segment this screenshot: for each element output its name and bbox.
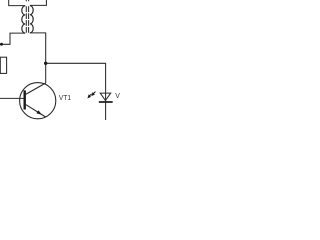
LED emission arrow 1 tail — [93, 92, 95, 94]
wire: node A to LED anode — [46, 63, 106, 93]
transformer core tick right (top edge) — [28, 0, 30, 1]
svg-text:VT1: VT1 — [59, 95, 71, 102]
wire: primary winding top lead exiting top edge — [9, 0, 26, 6]
wire: secondary winding top lead exiting top edge — [30, 0, 47, 5]
transistor base bar — [24, 90, 26, 109]
wire: base lead from left edge — [0, 97, 24, 99]
svg-text:VD1: VD1 — [115, 93, 120, 100]
LED cathode bar — [99, 101, 113, 103]
wire: collector lead slant into transistor — [26, 83, 46, 94]
transistor VT1 circle — [20, 83, 56, 119]
transformer core line left — [25, 6, 27, 33]
emitter arrowhead — [36, 110, 41, 114]
LED emission arrow 2 — [87, 94, 91, 98]
wire: LED cathode lead to bottom edge — [105, 93, 107, 120]
emitter lead of VT1 — [26, 105, 46, 117]
junction node A dot — [44, 62, 47, 65]
wire: node A down to collector — [45, 63, 47, 83]
LED emission arrow 1 — [91, 92, 95, 96]
wire: winding II bottom lead down to collector node — [30, 33, 46, 63]
junction dot on left wire — [0, 43, 3, 46]
LED VD triangle (anode) — [100, 93, 111, 100]
inductor winding II (right, arcs bulge right) — [30, 6, 33, 33]
resistor R (box at left edge) — [0, 57, 6, 73]
wire: winding I bottom lead to left edge — [0, 33, 25, 44]
transformer core tick left (top edge) — [25, 0, 27, 1]
transformer core line right — [28, 6, 30, 33]
LED emission arrow 2 tail — [89, 94, 91, 96]
inductor winding I (left, arcs bulge left) — [22, 6, 25, 33]
